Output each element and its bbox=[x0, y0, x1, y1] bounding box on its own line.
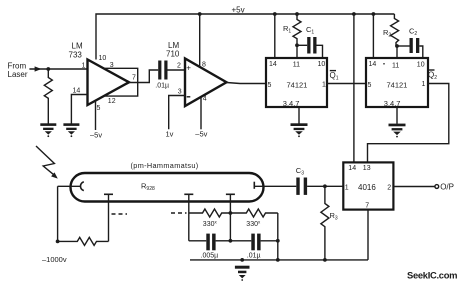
pin 8 wire bbox=[199, 14, 201, 67]
svg-text:.01µ: .01µ bbox=[155, 82, 169, 89]
wire U2 output to IC1 pin5 bbox=[227, 83, 267, 84]
svg-text:(pm-Hammamatsu): (pm-Hammamatsu) bbox=[131, 161, 199, 170]
svg-text:11: 11 bbox=[392, 62, 399, 69]
wire Q2 to 4016 pin13 bbox=[368, 84, 449, 163]
svg-text:12: 12 bbox=[108, 98, 116, 105]
wire Q1 to IC2 pin5 bbox=[327, 83, 366, 85]
wire cap to U2 bbox=[168, 69, 186, 71]
svg-text:4016: 4016 bbox=[358, 183, 376, 192]
pin 7 label bbox=[132, 74, 136, 81]
svg-text:5: 5 bbox=[268, 82, 272, 89]
dynode 1 stem bbox=[104, 194, 113, 241]
svg-text:13: 13 bbox=[363, 165, 371, 172]
svg-text:–5v: –5v bbox=[195, 130, 207, 139]
svg-text:LM: LM bbox=[72, 42, 83, 51]
pin 4 wire bbox=[200, 97, 202, 129]
pin 5 wire bbox=[95, 101, 97, 130]
+5v label bbox=[232, 6, 245, 15]
node dynode3 cap row bbox=[229, 239, 233, 243]
svg-text:SeekIC.com: SeekIC.com bbox=[407, 270, 457, 281]
1v label bbox=[166, 130, 174, 139]
pm tube label bbox=[131, 161, 199, 170]
op-amp U2 LM710 bbox=[185, 59, 227, 107]
input arrowhead bbox=[35, 66, 42, 71]
wire +5v to 4016 pin14 bbox=[353, 14, 355, 162]
wire 4016 pin7 bbox=[367, 210, 369, 260]
svg-text:Q2: Q2 bbox=[428, 70, 437, 81]
svg-text:733: 733 bbox=[69, 51, 83, 60]
node rail divider bbox=[276, 258, 280, 262]
wire 4016 pin2 output bbox=[393, 186, 435, 188]
wire U1 output bbox=[129, 70, 158, 83]
Q2bar label bbox=[428, 70, 437, 81]
svg-text:10: 10 bbox=[99, 55, 107, 62]
svg-text:2: 2 bbox=[387, 185, 391, 192]
resistor 330 second bbox=[230, 209, 277, 228]
pin 12 label bbox=[108, 98, 116, 105]
wire C3 to 4016 pin1 bbox=[307, 185, 343, 187]
wire pin11 IC1 bbox=[296, 45, 298, 58]
pin 8 label bbox=[202, 62, 206, 69]
wire anode to C3 bbox=[254, 185, 296, 187]
capacitor coupling .01u bbox=[155, 61, 169, 90]
wire pin14 IC2 bbox=[372, 14, 374, 58]
photomultiplier tube R928 bbox=[71, 173, 264, 202]
node C3/R3 bbox=[323, 184, 327, 188]
+5v rail bbox=[96, 14, 394, 60]
pin 2 label bbox=[177, 62, 191, 72]
svg-text:O/P: O/P bbox=[440, 183, 454, 192]
IC U2 74121 first bbox=[266, 58, 327, 108]
svg-text:7: 7 bbox=[132, 74, 136, 81]
photon lightning arrow bbox=[36, 146, 58, 179]
pin 5 label bbox=[97, 105, 101, 112]
svg-text:.01µ: .01µ bbox=[247, 253, 261, 260]
capacitor C3 bbox=[296, 166, 307, 195]
wire input from laser bbox=[29, 68, 87, 70]
ground bottom rail bbox=[235, 266, 250, 281]
node rail ground bbox=[240, 258, 244, 262]
svg-text:C2: C2 bbox=[409, 27, 417, 38]
dynode 3 stem bbox=[226, 194, 235, 241]
capacitor .01u bottom bbox=[230, 234, 277, 260]
wire C1 to pin10 bbox=[317, 45, 323, 58]
svg-text:11: 11 bbox=[293, 62, 300, 69]
svg-text:3: 3 bbox=[110, 62, 114, 69]
svg-text:14: 14 bbox=[73, 88, 81, 95]
node: rail junction box2 pin14 bbox=[372, 12, 376, 16]
svg-text:8: 8 bbox=[202, 62, 206, 69]
svg-text:Q1: Q1 bbox=[330, 71, 339, 82]
svg-text:74121: 74121 bbox=[387, 80, 408, 89]
dashed continuation right of dynode1 bbox=[112, 213, 128, 215]
ground input resistor bbox=[40, 123, 56, 137]
svg-text:–1000v: –1000v bbox=[42, 255, 67, 264]
svg-text:14: 14 bbox=[269, 61, 277, 68]
op-amp U1 LM733 bbox=[88, 60, 130, 106]
node rail R3 bbox=[323, 258, 327, 262]
node dynode3 divider bbox=[229, 211, 233, 215]
wire pin11 IC2 bbox=[396, 46, 398, 58]
svg-text:330x: 330x bbox=[246, 220, 261, 229]
svg-text:14: 14 bbox=[348, 165, 356, 172]
svg-text:C3: C3 bbox=[296, 166, 304, 177]
ground IC1 bbox=[291, 107, 308, 137]
svg-text:5: 5 bbox=[368, 82, 372, 89]
svg-text:1v: 1v bbox=[166, 130, 174, 139]
node R1/C1 bbox=[295, 43, 299, 47]
node A input junction bbox=[46, 67, 50, 71]
wire cathode drop bbox=[57, 186, 59, 241]
svg-text:R3: R3 bbox=[330, 211, 338, 222]
-1000v label bbox=[42, 255, 67, 264]
pin 3 label bbox=[178, 88, 191, 97]
wire divider right drop bbox=[277, 213, 279, 260]
ground IC2 bbox=[389, 107, 406, 138]
svg-text:R928: R928 bbox=[141, 181, 155, 192]
svg-text:1: 1 bbox=[82, 62, 86, 69]
svg-text:4: 4 bbox=[203, 96, 207, 103]
svg-text:10: 10 bbox=[318, 61, 326, 68]
resistor R3 bbox=[321, 186, 338, 260]
capacitor .005u bbox=[189, 234, 231, 260]
svg-text:C1: C1 bbox=[306, 25, 314, 36]
anode electrode bbox=[253, 182, 255, 189]
svg-text:10: 10 bbox=[417, 61, 425, 68]
capacitor C2 bbox=[397, 27, 419, 53]
bottom ground rail bbox=[190, 259, 368, 261]
resistor 330 first bbox=[189, 209, 231, 228]
svg-text:7: 7 bbox=[365, 203, 369, 210]
svg-text:R2: R2 bbox=[383, 28, 391, 39]
wire feedback loop pins 3-12 bbox=[104, 68, 138, 96]
svg-text:1: 1 bbox=[422, 81, 426, 88]
pin 14 stub wire bbox=[71, 95, 87, 124]
IC U3 74121 second bbox=[366, 58, 428, 108]
capacitor C1 bbox=[297, 25, 317, 54]
resistor R2 bbox=[383, 14, 399, 46]
resistor -1000v feed bbox=[58, 237, 109, 245]
dashed continuation left of dynode2 bbox=[171, 212, 187, 214]
svg-text:+5v: +5v bbox=[232, 6, 245, 15]
IC U4 4016 bbox=[343, 162, 393, 209]
node: rail junction 4016 pin14 bbox=[352, 12, 356, 16]
From Laser label bbox=[8, 62, 28, 80]
wire cathode lead bbox=[58, 185, 80, 187]
node: rail junction box1 pin14 bbox=[273, 12, 277, 16]
svg-text:5: 5 bbox=[97, 105, 101, 112]
svg-text:3,4,7: 3,4,7 bbox=[384, 99, 401, 108]
node: rail junction pin8 bbox=[198, 12, 202, 16]
node: rail junction R1 top bbox=[295, 12, 299, 16]
node divider drop cap row bbox=[276, 239, 280, 243]
resistor input bias bbox=[44, 69, 52, 124]
watermark SeekIC.com bbox=[407, 270, 457, 281]
svg-text:2: 2 bbox=[177, 62, 181, 69]
LM733 label bbox=[69, 42, 83, 60]
LM710 label bbox=[166, 41, 180, 59]
pin 10 label bbox=[99, 55, 107, 62]
node R2/C2 bbox=[395, 44, 399, 48]
svg-text:R1: R1 bbox=[283, 24, 291, 35]
pin 14 label bbox=[73, 88, 81, 95]
svg-text:–5v: –5v bbox=[90, 130, 102, 139]
pin 3 label bbox=[110, 62, 114, 69]
dynode 2 stem bbox=[184, 194, 193, 241]
O/P terminal bbox=[435, 183, 454, 192]
Q1bar label bbox=[330, 71, 339, 82]
svg-text:1: 1 bbox=[345, 185, 349, 192]
svg-text:330x: 330x bbox=[203, 220, 218, 229]
-5v label U2 bbox=[195, 130, 207, 139]
svg-text:Laser: Laser bbox=[8, 70, 28, 79]
svg-text:.005µ: .005µ bbox=[201, 253, 219, 260]
wire C2 to pin10 bbox=[419, 46, 423, 58]
svg-text:74121: 74121 bbox=[287, 80, 308, 89]
-5v label U1 bbox=[90, 130, 102, 139]
svg-text:+: + bbox=[186, 63, 191, 72]
svg-text:1: 1 bbox=[322, 82, 326, 89]
node -1000v bbox=[56, 240, 60, 244]
svg-text:710: 710 bbox=[166, 50, 180, 59]
ground pin14 bbox=[63, 123, 79, 137]
pin 4 label bbox=[203, 96, 207, 103]
resistor R1 bbox=[283, 14, 301, 45]
svg-text:14: 14 bbox=[369, 61, 377, 68]
cathode electrode bbox=[81, 182, 84, 191]
pin 3 stub wire bbox=[169, 96, 185, 130]
svg-text:3,4,7: 3,4,7 bbox=[283, 99, 300, 108]
wire pin14 IC1 bbox=[274, 14, 276, 58]
pin 1 label bbox=[82, 62, 86, 69]
svg-text:3: 3 bbox=[178, 88, 182, 95]
